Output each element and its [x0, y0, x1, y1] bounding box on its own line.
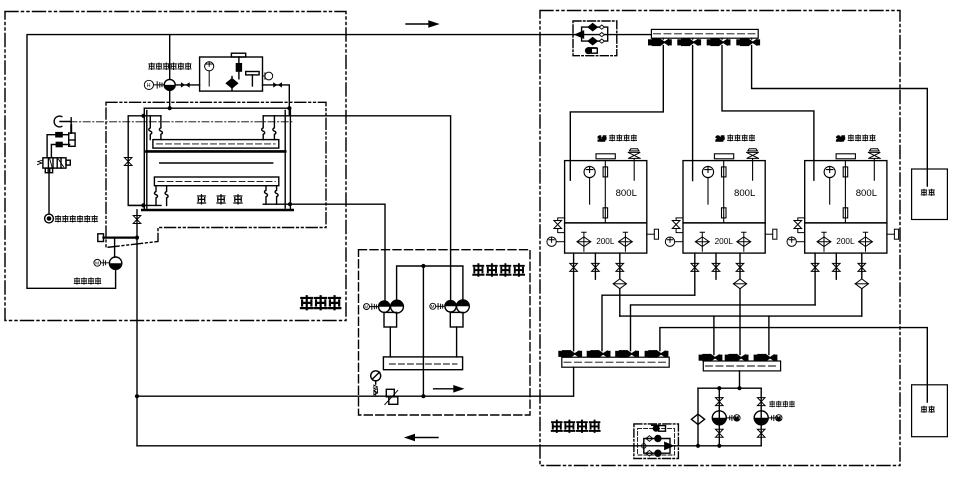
tank1 outlet riser 1: [573, 253, 575, 351]
wire pump to heater box: [175, 84, 199, 86]
upper plate: [153, 140, 279, 149]
label 涂油室 big: [301, 296, 340, 309]
machine right wall double: [285, 108, 290, 210]
bracket lower-right: [263, 203, 290, 205]
pressure gauge with slash: [371, 371, 381, 381]
wire manifold2 riser 1 to H3: [713, 316, 715, 354]
motor of metering pump 1: [364, 304, 379, 310]
arrow flow left on supply line: [413, 437, 438, 439]
tank2 metered riser 3: [739, 253, 741, 354]
enclosure bottom filter inner dashed box: [638, 429, 675, 455]
machine room top line: [144, 107, 290, 109]
top filter bridge: [582, 27, 608, 41]
bridge diamonds: [646, 436, 653, 456]
node return at drain pipe: [135, 394, 139, 398]
wire collector row D drain to bottom oil tank: [660, 328, 927, 402]
bridge top unit: [653, 426, 658, 431]
wire fill pipe to top oil tank: [752, 46, 928, 186]
tank group 2 (2# 800L/200L): [665, 149, 777, 253]
air quick coupling Э: [54, 116, 70, 127]
wire machine outlet lower to metering pump 1: [290, 204, 385, 301]
valve cluster 3 on top manifold: [707, 39, 729, 45]
enclosure top filter dash-dot box: [573, 21, 617, 56]
heater filled diamond valve: [226, 79, 237, 88]
wire pump suction header: [698, 387, 761, 389]
top manifold bar: [651, 29, 758, 38]
solenoid directional valve: [43, 158, 66, 168]
enclosure 涂油室 outer dash-dot box: [5, 12, 346, 321]
svg-text:M: M: [364, 304, 368, 309]
wire fill pipe to tank 3: [722, 46, 814, 181]
motor of recovery pump: [94, 259, 110, 266]
tank3 metered riser 3: [861, 253, 863, 316]
label 回收泵组: [74, 278, 101, 284]
label 油箱 top: [921, 189, 934, 195]
supply pump 1 branch: [718, 388, 720, 446]
wire manifold1 outlet to return line: [573, 367, 575, 396]
wire heat pump drop from loop: [169, 35, 171, 80]
heater outlet gauge: [263, 72, 273, 80]
bridge outlet arrow: [665, 443, 673, 450]
wire solenoid to air inlet: [48, 173, 50, 214]
valve cluster 4 on manifold1: [645, 351, 667, 357]
air line dash-dot across machine: [70, 121, 293, 123]
node at machine wall bottom: [141, 203, 145, 207]
machine left wall double: [144, 108, 147, 210]
node header junctions: [737, 386, 741, 390]
valve cluster 1 on manifold2: [699, 355, 721, 361]
filter dark diamonds: [588, 24, 597, 31]
tank3 outlet riser 1: [814, 253, 816, 305]
svg-text:2#: 2#: [716, 134, 725, 143]
machine middle strip line: [160, 162, 273, 164]
valve cluster 4 on top manifold: [737, 39, 759, 45]
label tank3 2#供油泵站: [836, 134, 875, 143]
wire elbows to solenoid valve: [47, 135, 70, 158]
wire pump to machine top: [169, 90, 171, 108]
svg-text:M: M: [95, 261, 99, 267]
drain valve pipe from machine bottom: [136, 210, 138, 446]
motor of metering pump 2: [430, 303, 445, 309]
node pump1 to supply line: [717, 444, 721, 448]
label 供油泵站 big: [552, 421, 600, 432]
return line to supply station: [137, 395, 573, 397]
tank2 outlet riser 1: [694, 253, 696, 295]
valve cluster 3 on manifold1: [616, 351, 638, 357]
recovery pump 回收泵组: [109, 257, 121, 269]
motor of supply pump 1: [726, 415, 740, 421]
arrow flow right on top line: [406, 23, 431, 25]
pressure regulator on return line: [386, 389, 394, 397]
valve cluster 2 on top manifold: [678, 39, 700, 45]
svg-text:H: H: [147, 83, 151, 89]
svg-text:M: M: [777, 416, 781, 421]
supply pump 2 branch: [760, 388, 762, 446]
enclosure 供油泵站 outer dash-dot box: [540, 11, 900, 466]
bridge filled circles: [655, 436, 661, 442]
arrow flow right in metering box: [434, 388, 457, 390]
heater box 刀梁加热系统 unit: [200, 57, 263, 91]
wire heater outlet to machine: [263, 85, 290, 116]
bracket upper-right: [263, 115, 290, 117]
wire bypass branch with check diamond: [697, 388, 699, 446]
bracket lower-left: [128, 204, 161, 206]
tank group 1 (1# 800L/200L): [547, 149, 659, 253]
tank2 drain riser 2: [715, 253, 717, 279]
node header to return: [421, 394, 425, 398]
label tank2 2#供油泵站: [716, 134, 755, 143]
filter small diamonds: [599, 25, 604, 43]
svg-text:M: M: [735, 416, 739, 421]
filter inlet arrow: [576, 31, 584, 38]
label 计量泵组: [473, 264, 524, 276]
valve cluster 1 on manifold1: [559, 351, 581, 357]
heater element vertical with filled rect: [238, 57, 240, 79]
air filter-regulator unit: [70, 125, 72, 133]
wire manifold2 down to pump header: [739, 371, 741, 388]
manifold2 bar: [703, 361, 780, 371]
node at machine wall top: [141, 114, 145, 118]
wire pump discharge header: [397, 266, 463, 396]
metering pump pair 1: [379, 301, 390, 312]
bead valves under gauge: [374, 385, 378, 396]
wire main recirculation loop: pump return left edge and top line to manifold: [27, 35, 651, 289]
funnel drain tray: [104, 236, 138, 238]
machine oil feed pipe left: [128, 116, 144, 206]
valve cluster 2 on manifold2: [725, 355, 747, 361]
enclosure machine inner dash-dot box: [106, 102, 326, 247]
node bypass to supply line: [696, 444, 700, 448]
node heating drop right: [287, 106, 291, 110]
wire collector H2 tank3 to manifold1: [631, 305, 816, 351]
valve on drain pipe: [133, 216, 141, 224]
wire bottom supply line to machine: [137, 445, 761, 447]
enclosure bottom filter dash-dot box: [634, 424, 679, 459]
tank group 3 (2# 800L/200L): [787, 149, 899, 253]
wire machine outlet upper to metering pump 2: [290, 116, 450, 300]
valve heater outlet: [273, 82, 282, 87]
wire fill pipe to tank 2: [692, 46, 694, 181]
label tank1 1#供油泵站: [598, 134, 637, 143]
heater T probe: [246, 72, 259, 75]
tank1 metered riser 3: [619, 253, 621, 316]
svg-text:1#: 1#: [598, 134, 607, 143]
label 涂 油 室 inside machine: [198, 195, 243, 204]
node machine outlet lower: [288, 202, 292, 206]
oil tank top 油箱: [912, 169, 948, 220]
svg-text:M: M: [431, 304, 435, 309]
machine bottom thick: [142, 209, 292, 212]
bracket upper-left: [144, 115, 161, 117]
node header left: [421, 264, 425, 268]
wire fill pipe to tank 1: [570, 46, 663, 181]
metering pump pair 2: [445, 301, 456, 312]
valve heater inlet: [181, 82, 190, 87]
pump mounting plate: [383, 357, 462, 370]
valve cluster 2 on manifold1: [587, 351, 609, 357]
motor H symbol: [144, 80, 164, 89]
manifold1 bar: [562, 357, 669, 367]
label 供油泵组 small: [770, 401, 795, 407]
bottom filter bridge: [644, 439, 670, 454]
thermometer in heater box: [205, 62, 214, 86]
tank3 drain riser 2: [835, 253, 837, 279]
label 油箱 bottom: [921, 406, 934, 412]
label 压缩空气入口: [55, 216, 97, 222]
lower plate: [154, 177, 278, 186]
oil tank bottom 油箱: [912, 385, 948, 437]
label 刀梁加热系统: [149, 63, 191, 70]
wire collector H1 tank2 to manifold1: [602, 295, 695, 351]
valve cluster 1 on top manifold: [649, 39, 671, 45]
wire manifold2 riser 3 to H3: [768, 316, 770, 354]
machine blade thick bar: [146, 150, 285, 153]
node heating drop left: [168, 106, 172, 110]
enclosure 计量泵组 dashed box: [359, 250, 531, 415]
air inlet marker 压缩空气入口: [45, 214, 54, 223]
valve cluster 3 on manifold2: [754, 355, 776, 361]
tank1 drain riser 2: [594, 253, 596, 279]
wire collector H3 metered line: [620, 315, 862, 317]
motor of supply pump 2: [768, 415, 782, 421]
pump heat circulation pump: [164, 79, 175, 90]
filter bottom pump unit: [586, 48, 592, 54]
valve on feed pipe: [124, 158, 132, 166]
svg-text:2#: 2#: [836, 134, 845, 143]
node drain-funnel junction: [135, 236, 139, 240]
